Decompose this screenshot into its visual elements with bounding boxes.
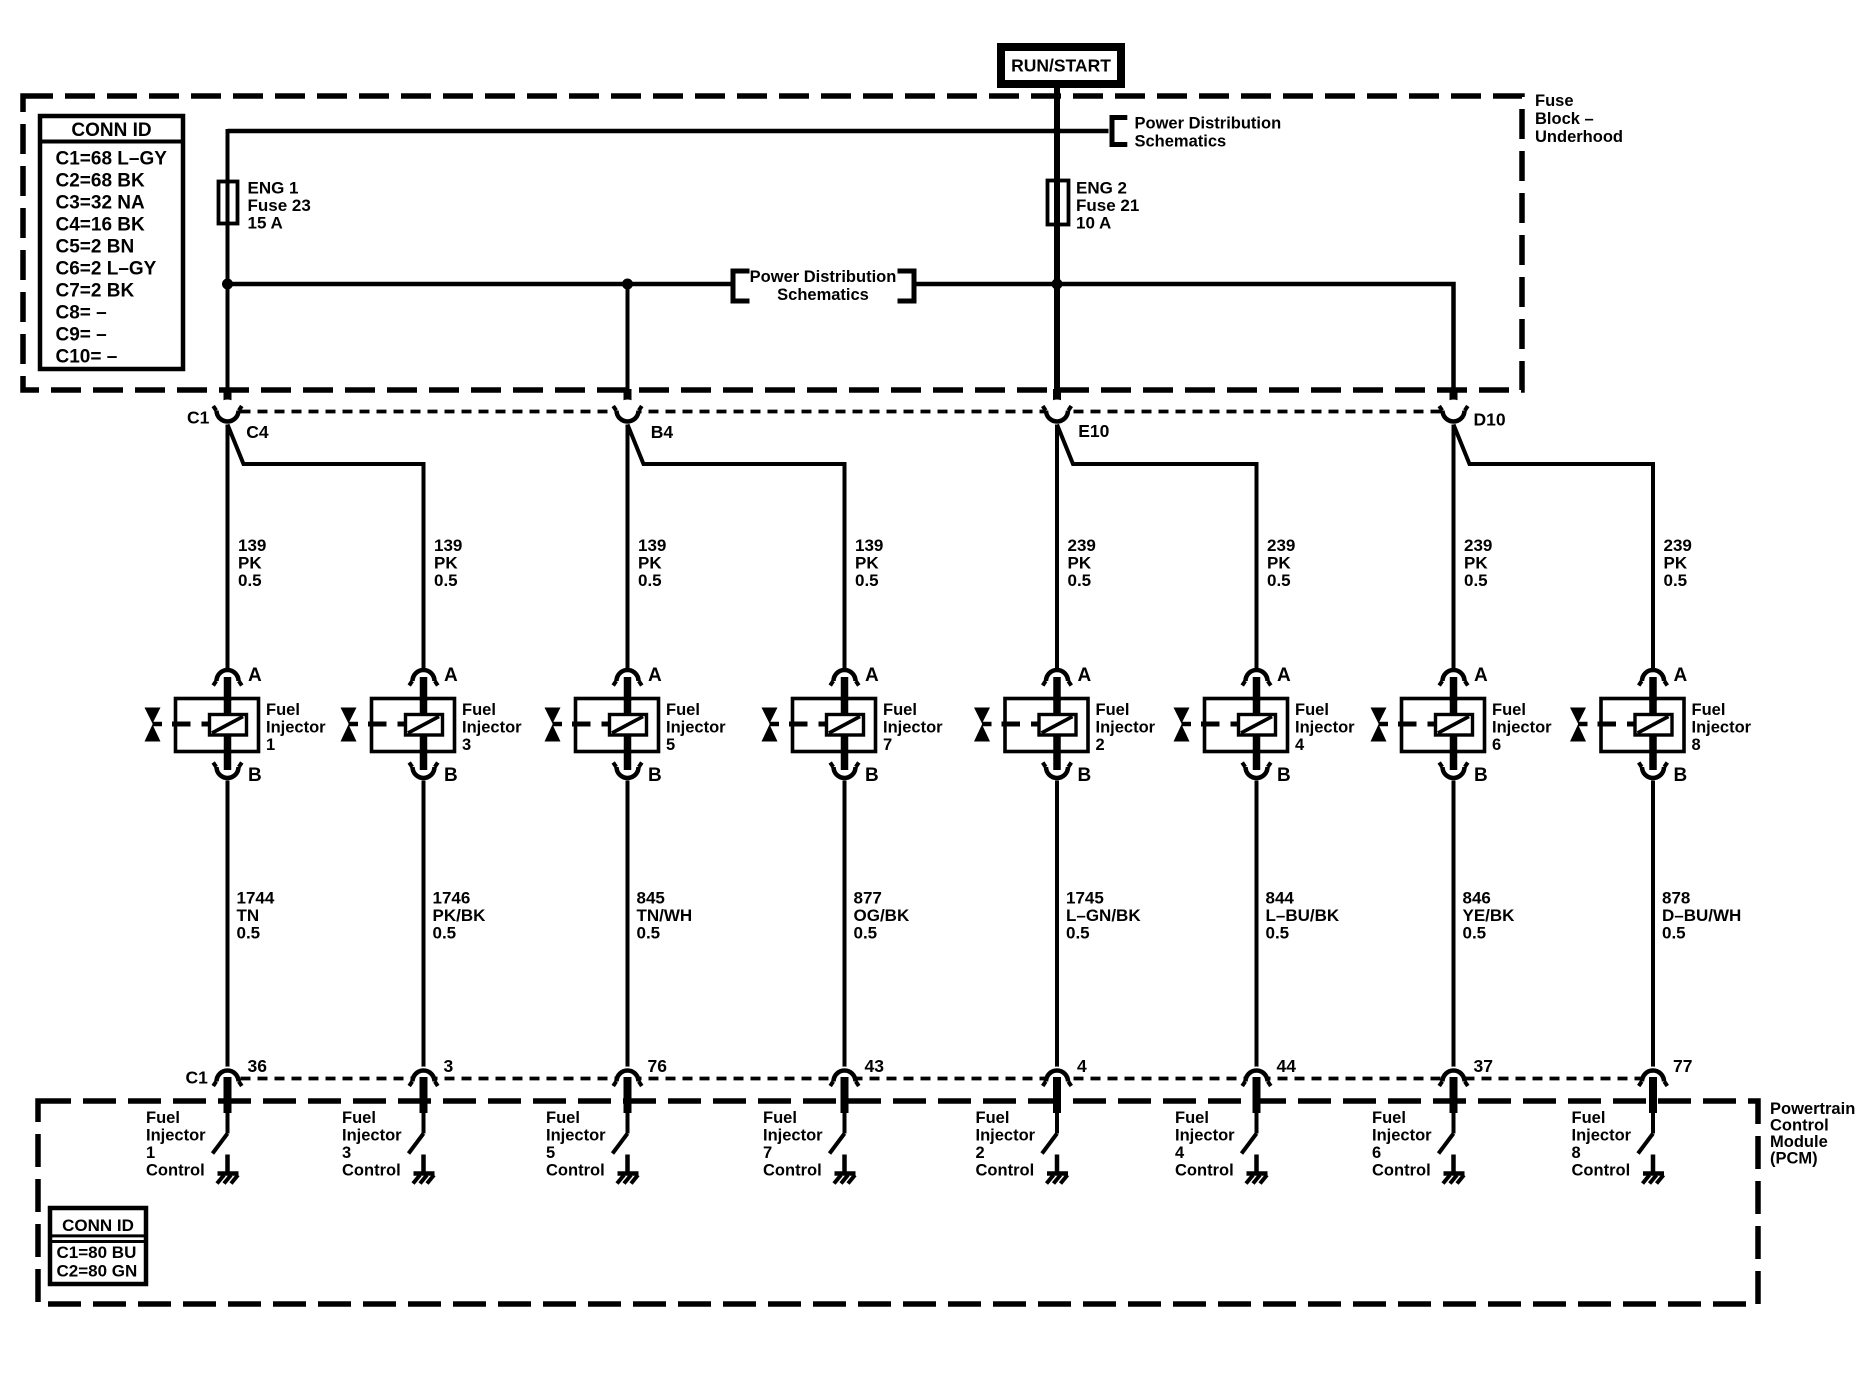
ground (PCM driver 7) xyxy=(834,1155,856,1184)
svg-text:0.5: 0.5 xyxy=(1068,571,1092,590)
fuel injector 4 xyxy=(1174,699,1288,753)
pin 77 PCM input pin xyxy=(1649,1077,1657,1113)
label Fuel Injector 7 Control xyxy=(763,1109,823,1180)
pin 37 PCM input pin xyxy=(1450,1077,1458,1113)
switch (driver) fuel injector 4 control xyxy=(1242,1134,1257,1154)
svg-text:0.5: 0.5 xyxy=(237,924,261,943)
connector terminal PCM pin 77 xyxy=(1639,1067,1668,1092)
pin D10 fuse block output pin xyxy=(1450,389,1458,411)
svg-text:Fuel: Fuel xyxy=(883,701,917,719)
svg-text:139: 139 xyxy=(238,536,266,555)
svg-text:Fuel: Fuel xyxy=(1295,701,1329,719)
pin E10 fuse block output pin xyxy=(1053,389,1061,411)
pin A of fuel injector 4 xyxy=(1253,677,1261,701)
label Fuel Injector 1 Control xyxy=(146,1109,206,1180)
svg-text:76: 76 xyxy=(648,1056,668,1076)
svg-text:Injector: Injector xyxy=(976,1127,1036,1145)
svg-text:239: 239 xyxy=(1068,536,1096,555)
wire label 239 PK 0.5 (injector 8 supply) xyxy=(1664,536,1692,590)
svg-text:B: B xyxy=(1474,765,1488,786)
svg-text:0.5: 0.5 xyxy=(433,924,457,943)
svg-text:Fuel: Fuel xyxy=(1692,701,1726,719)
connector terminal A of fuel injector 7 xyxy=(830,665,879,686)
svg-text:A: A xyxy=(444,665,458,686)
svg-text:239: 239 xyxy=(1464,536,1492,555)
label Fuel Injector 5 Control xyxy=(546,1109,606,1180)
pin B of fuel injector 4 xyxy=(1253,750,1261,770)
wire branch from E10 to second injector xyxy=(1057,425,1257,670)
svg-text:CONN ID: CONN ID xyxy=(62,1216,134,1235)
connector terminal PCM pin 37 xyxy=(1439,1067,1468,1092)
svg-text:0.5: 0.5 xyxy=(1267,571,1291,590)
svg-text:Injector: Injector xyxy=(666,719,726,737)
svg-text:1: 1 xyxy=(146,1144,155,1162)
fuel injector 6 xyxy=(1371,699,1485,753)
wire label 877 OG/BK 0.5 xyxy=(854,889,910,943)
wire label 139 PK 0.5 (injector 1 supply) xyxy=(238,536,266,590)
svg-text:D–BU/WH: D–BU/WH xyxy=(1662,906,1741,925)
wire from D10 to injector (straight drop) xyxy=(1452,425,1456,670)
svg-text:PK: PK xyxy=(1068,554,1092,573)
svg-text:Injector: Injector xyxy=(546,1127,606,1145)
switch (driver) fuel injector 5 control xyxy=(613,1134,628,1154)
wire PCM driver 6 xyxy=(1452,1113,1456,1134)
svg-text:D10: D10 xyxy=(1474,410,1506,430)
svg-text:36: 36 xyxy=(248,1056,268,1076)
svg-text:1: 1 xyxy=(266,736,275,754)
connector terminal A of fuel injector 4 xyxy=(1242,665,1291,686)
svg-text:0.5: 0.5 xyxy=(1066,924,1090,943)
power node RUN/START xyxy=(1001,47,1121,84)
svg-text:Power Distribution: Power Distribution xyxy=(1135,115,1282,133)
svg-text:Control: Control xyxy=(342,1162,401,1180)
wire label 846 YE/BK 0.5 xyxy=(1463,889,1516,943)
svg-text:5: 5 xyxy=(546,1144,555,1162)
wire branch from D10 to second injector xyxy=(1454,425,1654,670)
pin A of fuel injector 7 xyxy=(841,677,849,701)
wire PCM driver 7 xyxy=(843,1113,847,1134)
connector terminal A of fuel injector 3 xyxy=(409,665,458,686)
svg-text:2: 2 xyxy=(1096,736,1105,754)
pin B of fuel injector 6 xyxy=(1450,750,1458,770)
svg-text:139: 139 xyxy=(638,536,666,555)
svg-text:845: 845 xyxy=(637,889,665,908)
pin B of fuel injector 8 xyxy=(1649,750,1657,770)
label Fuel Injector 2 xyxy=(1096,701,1156,754)
svg-text:C7=2 BK: C7=2 BK xyxy=(56,281,135,302)
svg-text:Fuel: Fuel xyxy=(1175,1109,1209,1127)
svg-text:Injector: Injector xyxy=(146,1127,206,1145)
fuel injector 2 xyxy=(974,699,1088,753)
pin 4 PCM input pin xyxy=(1053,1077,1061,1113)
svg-text:C1: C1 xyxy=(186,1068,209,1088)
junction dot ENG1 branch xyxy=(222,279,233,290)
wire ignition bus (RUN/START to ENG1 fuse and callout) xyxy=(228,129,1109,134)
svg-text:PK: PK xyxy=(855,554,879,573)
svg-text:Underhood: Underhood xyxy=(1535,128,1623,146)
wire branch from B4 to second injector xyxy=(628,425,845,670)
svg-text:1744: 1744 xyxy=(237,889,275,908)
wire PCM driver 8 xyxy=(1651,1113,1655,1134)
svg-text:0.5: 0.5 xyxy=(1464,571,1488,590)
svg-text:PK: PK xyxy=(1664,554,1688,573)
pin B of fuel injector 1 xyxy=(224,750,232,770)
wire PCM driver 3 xyxy=(422,1113,426,1134)
pin 3 PCM input pin xyxy=(420,1077,428,1113)
svg-text:239: 239 xyxy=(1664,536,1692,555)
svg-text:A: A xyxy=(1078,665,1092,686)
svg-text:PK: PK xyxy=(1464,554,1488,573)
svg-text:Injector: Injector xyxy=(1372,1127,1432,1145)
svg-text:PK/BK: PK/BK xyxy=(433,906,487,925)
svg-text:PK: PK xyxy=(238,554,262,573)
svg-text:239: 239 xyxy=(1267,536,1295,555)
svg-text:Control: Control xyxy=(1572,1162,1631,1180)
ground (PCM driver 8) xyxy=(1643,1155,1665,1184)
svg-text:846: 846 xyxy=(1463,889,1491,908)
svg-text:Fuse 23: Fuse 23 xyxy=(248,196,311,215)
svg-text:Schematics: Schematics xyxy=(1135,133,1227,151)
connector terminal A of fuel injector 5 xyxy=(613,665,662,686)
svg-text:4: 4 xyxy=(1175,1144,1185,1162)
wire from C4 to injector (straight drop) xyxy=(226,425,230,670)
svg-text:37: 37 xyxy=(1474,1056,1493,1076)
svg-text:Fuel: Fuel xyxy=(666,701,700,719)
wire injector 3 control (1746 PK/BK) xyxy=(422,781,426,1071)
pin 43 PCM input pin xyxy=(841,1077,849,1113)
ground (PCM driver 1) xyxy=(217,1155,239,1184)
svg-text:C3=32 NA: C3=32 NA xyxy=(56,193,146,214)
fuel injector 1 xyxy=(145,699,259,753)
junction dot ENG2 branch xyxy=(1052,279,1063,290)
svg-text:0.5: 0.5 xyxy=(1463,924,1487,943)
label Fuel Injector 6 xyxy=(1492,701,1552,754)
svg-text:Fuel: Fuel xyxy=(1492,701,1526,719)
svg-text:1745: 1745 xyxy=(1066,889,1104,908)
wire label 139 PK 0.5 (injector 3 supply) xyxy=(434,536,462,590)
svg-text:Schematics: Schematics xyxy=(777,286,869,304)
connector terminal E10 xyxy=(1043,400,1072,425)
connector terminal A of fuel injector 2 xyxy=(1043,665,1092,686)
svg-text:43: 43 xyxy=(865,1056,885,1076)
svg-text:PK: PK xyxy=(1267,554,1291,573)
switch (driver) fuel injector 3 control xyxy=(409,1134,424,1154)
svg-text:C1=80 BU: C1=80 BU xyxy=(57,1243,137,1262)
svg-text:CONN ID: CONN ID xyxy=(71,120,151,141)
connector ID table (fuse block) xyxy=(40,116,183,369)
svg-text:5: 5 xyxy=(666,736,675,754)
svg-text:Injector: Injector xyxy=(763,1127,823,1145)
pin A of fuel injector 1 xyxy=(224,677,232,701)
switch (driver) fuel injector 8 control xyxy=(1638,1134,1653,1154)
connector terminal PCM pin 36 xyxy=(213,1067,242,1092)
svg-text:C2=80 GN: C2=80 GN xyxy=(57,1262,138,1281)
switch (driver) fuel injector 6 control xyxy=(1439,1134,1454,1154)
svg-text:Powertrain: Powertrain xyxy=(1770,1100,1855,1118)
svg-text:Fuel: Fuel xyxy=(462,701,496,719)
pin 76 PCM input pin xyxy=(624,1077,632,1113)
svg-text:Block –: Block – xyxy=(1535,110,1594,128)
svg-text:B: B xyxy=(648,765,662,786)
svg-text:C1: C1 xyxy=(187,408,210,428)
wire RUN/START feed trunk xyxy=(1054,88,1060,390)
svg-text:Injector: Injector xyxy=(266,719,326,737)
callout Power Distribution Schematics (middle) xyxy=(733,268,914,304)
label Fuel Injector 8 Control xyxy=(1572,1109,1632,1180)
svg-text:3: 3 xyxy=(342,1144,351,1162)
svg-text:C6=2 L–GY: C6=2 L–GY xyxy=(56,259,157,280)
svg-text:10 A: 10 A xyxy=(1076,214,1111,233)
connector row C1 (fuse block outputs) dotted line xyxy=(241,410,1442,414)
svg-text:Power Distribution: Power Distribution xyxy=(750,268,897,286)
wire label 1744 TN 0.5 xyxy=(237,889,275,943)
svg-text:Fuel: Fuel xyxy=(266,701,300,719)
svg-text:Injector: Injector xyxy=(1175,1127,1235,1145)
svg-text:A: A xyxy=(648,665,662,686)
svg-text:C9= –: C9= – xyxy=(56,325,107,346)
wire fused ignition bus right segment xyxy=(914,284,1454,390)
wire PCM driver 1 xyxy=(226,1113,230,1134)
svg-text:0.5: 0.5 xyxy=(637,924,661,943)
svg-text:B: B xyxy=(1078,765,1092,786)
fuse block underhood dashed border xyxy=(23,96,1522,390)
svg-text:PK: PK xyxy=(638,554,662,573)
connector terminal PCM pin 43 xyxy=(830,1067,859,1092)
label Fuse Block - Underhood xyxy=(1535,92,1623,146)
connector row C1 (PCM inputs) dotted line xyxy=(241,1077,1641,1081)
wire PCM driver 2 xyxy=(1055,1113,1059,1134)
wire PCM driver 4 xyxy=(1255,1113,1259,1134)
svg-text:44: 44 xyxy=(1277,1056,1297,1076)
svg-text:Fuel: Fuel xyxy=(763,1109,797,1127)
svg-text:3: 3 xyxy=(462,736,471,754)
pin A of fuel injector 8 xyxy=(1649,677,1657,701)
connector terminal B4 xyxy=(613,400,642,425)
svg-text:A: A xyxy=(248,665,262,686)
svg-text:Module: Module xyxy=(1770,1133,1828,1151)
svg-text:878: 878 xyxy=(1662,889,1690,908)
svg-text:C8= –: C8= – xyxy=(56,303,107,324)
svg-text:Control: Control xyxy=(1770,1117,1829,1135)
svg-text:ENG 1: ENG 1 xyxy=(248,179,299,198)
wire ENG1 fuse feed xyxy=(226,129,230,390)
svg-text:TN: TN xyxy=(237,906,260,925)
svg-text:Control: Control xyxy=(1175,1162,1234,1180)
label Fuel Injector 5 xyxy=(666,701,726,754)
pin C4 fuse block output pin xyxy=(224,389,232,411)
svg-text:PK: PK xyxy=(434,554,458,573)
svg-text:Fuel: Fuel xyxy=(1572,1109,1606,1127)
pin B of fuel injector 2 xyxy=(1053,750,1061,770)
label Fuel Injector 2 Control xyxy=(976,1109,1036,1180)
svg-text:L–BU/BK: L–BU/BK xyxy=(1266,906,1340,925)
pin 44 PCM input pin xyxy=(1253,1077,1261,1113)
svg-text:Injector: Injector xyxy=(1692,719,1752,737)
connector terminal B of fuel injector 4 xyxy=(1242,763,1291,787)
svg-text:2: 2 xyxy=(976,1144,985,1162)
ground (PCM driver 3) xyxy=(413,1155,435,1184)
svg-text:844: 844 xyxy=(1266,889,1295,908)
svg-text:RUN/START: RUN/START xyxy=(1011,56,1111,76)
svg-text:B: B xyxy=(865,765,879,786)
wire label 239 PK 0.5 (injector 4 supply) xyxy=(1267,536,1295,590)
pin B4 fuse block output pin xyxy=(624,389,632,411)
label Fuel Injector 7 xyxy=(883,701,943,754)
svg-text:Fuel: Fuel xyxy=(342,1109,376,1127)
svg-text:C4: C4 xyxy=(246,422,269,442)
label Fuel Injector 4 xyxy=(1295,701,1355,754)
ground (PCM driver 6) xyxy=(1443,1155,1465,1184)
svg-text:Fuel: Fuel xyxy=(976,1109,1010,1127)
svg-text:Control: Control xyxy=(976,1162,1035,1180)
svg-text:7: 7 xyxy=(883,736,892,754)
fuel injector 7 xyxy=(762,699,876,753)
svg-text:Control: Control xyxy=(763,1162,822,1180)
wire label 239 PK 0.5 (injector 6 supply) xyxy=(1464,536,1492,590)
connector terminal PCM pin 4 xyxy=(1043,1067,1072,1092)
svg-text:0.5: 0.5 xyxy=(238,571,262,590)
wire fused ignition bus left segment xyxy=(228,282,734,287)
svg-text:Injector: Injector xyxy=(1492,719,1552,737)
wire label 1745 L&#8211;GN/BK 0.5 xyxy=(1066,889,1141,943)
svg-text:0.5: 0.5 xyxy=(855,571,879,590)
svg-text:B: B xyxy=(1277,765,1291,786)
wire injector 6 control (846 YE/BK) xyxy=(1452,781,1456,1071)
wire injector 7 control (877 OG/BK) xyxy=(843,781,847,1071)
junction RUN/START trunk x ignition bus xyxy=(1053,127,1061,135)
wire label 239 PK 0.5 (injector 2 supply) xyxy=(1068,536,1096,590)
svg-text:Injector: Injector xyxy=(883,719,943,737)
pin B of fuel injector 5 xyxy=(624,750,632,770)
svg-text:(PCM): (PCM) xyxy=(1770,1150,1818,1168)
svg-text:Fuse 21: Fuse 21 xyxy=(1076,196,1139,215)
svg-text:YE/BK: YE/BK xyxy=(1463,906,1516,925)
switch (driver) fuel injector 1 control xyxy=(213,1134,228,1154)
label Fuel Injector 3 Control xyxy=(342,1109,402,1180)
fuel injector 8 xyxy=(1570,699,1684,753)
svg-text:Fuel: Fuel xyxy=(1372,1109,1406,1127)
svg-text:0.5: 0.5 xyxy=(854,924,878,943)
wire label 1746 PK/BK 0.5 xyxy=(433,889,487,943)
fuel injector 3 xyxy=(341,699,455,753)
wire label 139 PK 0.5 (injector 5 supply) xyxy=(638,536,666,590)
connector terminal B of fuel injector 7 xyxy=(830,763,879,787)
connector terminal A of fuel injector 1 xyxy=(213,665,262,686)
svg-text:L–GN/BK: L–GN/BK xyxy=(1066,906,1141,925)
svg-text:Injector: Injector xyxy=(1572,1127,1632,1145)
svg-text:15 A: 15 A xyxy=(248,214,283,233)
svg-text:8: 8 xyxy=(1572,1144,1581,1162)
connector terminal PCM pin 3 xyxy=(409,1067,438,1092)
fuse ENG 1 Fuse 23 15A xyxy=(219,179,311,233)
label Powertrain Control Module (PCM) xyxy=(1770,1100,1855,1168)
svg-text:Injector: Injector xyxy=(462,719,522,737)
wire from E10 to injector (straight drop) xyxy=(1055,425,1059,670)
svg-text:0.5: 0.5 xyxy=(1266,924,1290,943)
ground (PCM driver 5) xyxy=(617,1155,639,1184)
wire label 844 L&#8211;BU/BK 0.5 xyxy=(1266,889,1340,943)
wire injector 2 control (1745 L&#8211;GN/BK) xyxy=(1055,781,1059,1071)
svg-text:E10: E10 xyxy=(1078,421,1109,441)
wire injector 8 control (878 D&#8211;BU/WH) xyxy=(1651,781,1655,1071)
svg-text:A: A xyxy=(1474,665,1488,686)
pin B of fuel injector 3 xyxy=(420,750,428,770)
wire B4 connector feed xyxy=(626,284,630,390)
label Fuel Injector 4 Control xyxy=(1175,1109,1235,1180)
pin B of fuel injector 7 xyxy=(841,750,849,770)
svg-text:7: 7 xyxy=(763,1144,772,1162)
connector terminal A of fuel injector 6 xyxy=(1439,665,1488,686)
svg-text:139: 139 xyxy=(434,536,462,555)
svg-text:0.5: 0.5 xyxy=(638,571,662,590)
wire PCM driver 5 xyxy=(626,1113,630,1134)
label Fuel Injector 8 xyxy=(1692,701,1752,754)
label Fuel Injector 1 xyxy=(266,701,326,754)
fuel injector 5 xyxy=(545,699,659,753)
label Fuel Injector 3 xyxy=(462,701,522,754)
svg-text:C4=16 BK: C4=16 BK xyxy=(56,215,146,236)
svg-text:Fuse: Fuse xyxy=(1535,92,1574,110)
svg-text:4: 4 xyxy=(1295,736,1305,754)
svg-text:139: 139 xyxy=(855,536,883,555)
svg-text:OG/BK: OG/BK xyxy=(854,906,910,925)
connector terminal B of fuel injector 3 xyxy=(409,763,458,787)
svg-text:A: A xyxy=(1277,665,1291,686)
svg-text:C5=2 BN: C5=2 BN xyxy=(56,237,135,258)
wire label 878 D&#8211;BU/WH 0.5 xyxy=(1662,889,1741,943)
svg-text:B: B xyxy=(1674,765,1688,786)
svg-text:C1=68 L–GY: C1=68 L–GY xyxy=(56,149,168,170)
svg-text:Control: Control xyxy=(146,1162,205,1180)
pin 36 PCM input pin xyxy=(224,1077,232,1113)
svg-text:6: 6 xyxy=(1492,736,1501,754)
svg-text:3: 3 xyxy=(444,1056,454,1076)
svg-text:Injector: Injector xyxy=(342,1127,402,1145)
svg-text:Control: Control xyxy=(1372,1162,1431,1180)
label Fuel Injector 6 Control xyxy=(1372,1109,1432,1180)
wire from B4 to injector (straight drop) xyxy=(626,425,630,670)
svg-text:Injector: Injector xyxy=(1096,719,1156,737)
svg-text:Fuel: Fuel xyxy=(146,1109,180,1127)
svg-text:0.5: 0.5 xyxy=(434,571,458,590)
svg-text:877: 877 xyxy=(854,889,882,908)
svg-text:6: 6 xyxy=(1372,1144,1381,1162)
connector ID table (PCM) xyxy=(50,1208,146,1284)
switch (driver) fuel injector 7 control xyxy=(830,1134,845,1154)
svg-text:Fuel: Fuel xyxy=(1096,701,1130,719)
ground (PCM driver 2) xyxy=(1047,1155,1069,1184)
wire injector 4 control (844 L&#8211;BU/BK) xyxy=(1255,781,1259,1071)
svg-text:77: 77 xyxy=(1673,1056,1692,1076)
svg-text:Control: Control xyxy=(546,1162,605,1180)
svg-text:C2=68 BK: C2=68 BK xyxy=(56,171,146,192)
svg-text:8: 8 xyxy=(1692,736,1701,754)
connector terminal B of fuel injector 8 xyxy=(1639,763,1688,787)
svg-text:0.5: 0.5 xyxy=(1664,571,1688,590)
connector terminal A of fuel injector 8 xyxy=(1639,665,1688,686)
fuse ENG 2 Fuse 21 10A xyxy=(1048,179,1140,233)
svg-text:4: 4 xyxy=(1077,1056,1087,1076)
switch (driver) fuel injector 2 control xyxy=(1042,1134,1057,1154)
pin A of fuel injector 5 xyxy=(624,677,632,701)
svg-text:B4: B4 xyxy=(651,422,674,442)
connector terminal PCM pin 44 xyxy=(1242,1067,1271,1092)
connector terminal C4 xyxy=(213,400,242,425)
svg-text:Fuel: Fuel xyxy=(546,1109,580,1127)
svg-text:A: A xyxy=(865,665,879,686)
svg-text:Injector: Injector xyxy=(1295,719,1355,737)
svg-text:1746: 1746 xyxy=(433,889,471,908)
